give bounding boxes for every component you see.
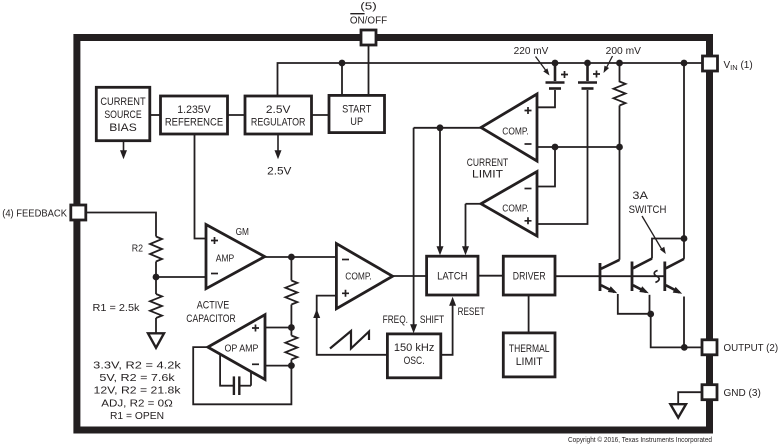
wire between compensation resistors: [290, 305, 292, 336]
svg-text:R1 = 2.5k: R1 = 2.5k: [93, 302, 141, 314]
junction node on VIN rail at startup: [339, 60, 346, 67]
box latch: [427, 256, 478, 295]
pin VIN (1): [703, 56, 718, 71]
resistor compensation upper: [285, 281, 297, 305]
arrowhead latch set 2: [462, 246, 469, 255]
wire cap2 to comp2 + input: [537, 90, 588, 224]
overline on ON: [350, 13, 364, 15]
transistor Q3: [665, 259, 684, 293]
base resistor squiggle: [654, 270, 659, 282]
transistor Q2: [632, 259, 652, 293]
svg-text:LIMIT: LIMIT: [472, 169, 503, 181]
svg-text:SWITCH: SWITCH: [629, 204, 667, 216]
minus mark GM: [211, 273, 218, 275]
svg-text:COMP.: COMP.: [502, 127, 529, 138]
wire Q3 emitter to output rail: [683, 297, 685, 348]
junction node cap2: [584, 60, 591, 67]
box 2.5V regulator: [245, 96, 312, 134]
wire frequency shift to oscillator: [413, 128, 415, 326]
wire startup feed from VIN rail: [341, 63, 343, 95]
junction node comp minus rail right: [616, 144, 623, 151]
box 150 kHz oscillator: [387, 334, 440, 378]
plus mark comp2: [525, 217, 532, 224]
svg-text:2.5V: 2.5V: [267, 166, 292, 178]
wire reset from oscillator to latch: [441, 305, 453, 355]
wire regulator to startup link: [312, 114, 330, 116]
svg-text:12V, R2 = 21.8k: 12V, R2 = 21.8k: [94, 385, 182, 397]
capacitor active feedback: [220, 355, 251, 396]
svg-text:GM: GM: [236, 226, 249, 238]
wire comparator output to latch: [393, 275, 427, 277]
svg-text:ADJ, R2 = 0Ω: ADJ, R2 = 0Ω: [101, 397, 173, 409]
sawtooth waveform: [330, 331, 369, 349]
plus mark cap1: [561, 71, 568, 78]
svg-text:ON/OFF: ON/OFF: [350, 16, 387, 27]
arrowhead Q3 emitter: [673, 287, 684, 297]
wire driver to thermal limit: [528, 295, 530, 333]
junction node op-amp -: [288, 362, 295, 369]
minus mark comp1: [525, 143, 532, 145]
arrowhead latch set 1: [437, 246, 444, 255]
svg-text:Copyright © 2016, Texas Instru: Copyright © 2016, Texas Instruments Inco…: [568, 436, 712, 444]
resistor current sense: [614, 63, 626, 106]
svg-text:RESET: RESET: [458, 306, 485, 318]
svg-text:R2: R2: [132, 243, 143, 255]
plus mark comp1: [525, 107, 532, 114]
wire set input to latch: [439, 128, 441, 248]
wire R2/R1 node to GM amp - input: [156, 276, 206, 278]
resistor compensation lower: [285, 336, 297, 360]
IC boundary border: [77, 38, 710, 431]
svg-text:OSC.: OSC.: [404, 355, 425, 367]
svg-text:(5): (5): [360, 2, 377, 13]
svg-text:OUTPUT (2): OUTPUT (2): [724, 343, 778, 354]
svg-text:3.3V, R2 = 4.2k: 3.3V, R2 = 4.2k: [93, 359, 181, 371]
wire VIN rail to switch collectors: [683, 63, 685, 259]
op-amp current limit comparator 1: [481, 94, 537, 161]
wire GM output node down to compensation resistor: [290, 257, 292, 281]
pin ON/OFF (5): [361, 30, 376, 45]
wire op-amp - input: [265, 365, 291, 367]
minus mark op-amp: [252, 363, 259, 365]
ground symbol: [670, 404, 686, 417]
arrowhead reset up: [449, 297, 456, 306]
wire Q2 collector branch: [652, 239, 684, 259]
box start up: [329, 95, 385, 132]
svg-text:OP AMP: OP AMP: [225, 344, 259, 355]
wire op-amp feedback loop: [193, 347, 291, 404]
open arrow below R1: [148, 333, 164, 348]
minus mark comp2: [525, 188, 532, 190]
junction node cap1: [552, 60, 559, 67]
arrowhead 2.5V down: [277, 134, 279, 152]
minus mark PWM comparator: [342, 259, 349, 261]
arrowhead sawtooth up: [313, 309, 320, 318]
op-amp GM amplifier: [206, 225, 265, 289]
resistor R2: [150, 237, 162, 262]
plus mark cap2: [593, 71, 600, 78]
junction node comp minus rail left: [552, 144, 559, 151]
svg-text:SHIFT: SHIFT: [420, 314, 445, 326]
box 1.235V reference: [161, 96, 228, 134]
transistor Q1: [600, 260, 620, 292]
svg-text:COMP.: COMP.: [345, 272, 372, 283]
svg-text:LIMIT: LIMIT: [516, 356, 543, 368]
svg-text:ACTIVE: ACTIVE: [197, 299, 229, 311]
wire R2 to R1: [155, 262, 157, 295]
wire sense resistor to Q1 collector: [619, 106, 621, 260]
svg-text:220 mV: 220 mV: [514, 46, 549, 57]
wire driver to switch base rail: [555, 275, 665, 277]
svg-text:R1 = OPEN: R1 = OPEN: [110, 410, 164, 422]
svg-text:CURRENT: CURRENT: [100, 96, 146, 108]
junction node R2/R1 divider: [153, 274, 160, 281]
wire Q2 emitter to emitter node: [649, 295, 651, 314]
arrowhead frequency shift: [410, 324, 417, 333]
svg-text:CURRENT: CURRENT: [467, 157, 509, 169]
wire GND pin to ground symbol: [678, 392, 702, 404]
svg-text:UP: UP: [350, 116, 363, 128]
wire comp1 - input rail: [537, 146, 620, 148]
pointer arrow 220 mV: [536, 57, 548, 73]
svg-text:THERMAL: THERMAL: [509, 343, 550, 355]
wire comparator + input to oscillator: [317, 296, 388, 355]
wire reference to regulator link: [228, 114, 246, 116]
arrowhead Q1 emitter: [608, 286, 619, 296]
op-amp current limit comparator 2: [481, 172, 537, 237]
svg-text:SOURCE: SOURCE: [104, 109, 141, 121]
svg-text:REFERENCE: REFERENCE: [165, 116, 223, 128]
junction node emitters: [647, 311, 654, 318]
svg-text:200 mV: 200 mV: [606, 46, 642, 57]
arrowhead Q2 emitter: [639, 286, 650, 296]
junction node GM output: [288, 254, 295, 261]
box thermal limit: [503, 333, 555, 377]
junction node Q2 collector: [681, 235, 688, 242]
wire latch to driver: [478, 275, 503, 277]
svg-text:DRIVER: DRIVER: [513, 271, 546, 283]
svg-text:START: START: [342, 104, 371, 116]
svg-text:REGULATOR: REGULATOR: [251, 116, 306, 128]
wire VIN rail from regulator to VIN pin: [278, 63, 703, 96]
pin GND (3): [702, 385, 717, 400]
wire R1 to open arrow: [155, 318, 157, 333]
svg-text:BIAS: BIAS: [109, 122, 137, 134]
svg-text:1.235V: 1.235V: [177, 104, 211, 116]
junction node op-amp +: [288, 324, 295, 331]
plus mark op-amp: [252, 325, 259, 332]
svg-text:150 kHz: 150 kHz: [394, 342, 435, 354]
resistor R1: [150, 294, 162, 318]
capacitor 200mV offset: [578, 63, 597, 89]
pointer arrow 3A switch: [642, 216, 663, 251]
wire reference to GM amp + input: [195, 134, 207, 239]
junction node sense resistor: [616, 60, 623, 67]
box current source bias: [96, 87, 150, 140]
wire bias to reference link: [150, 114, 161, 116]
pointer arrow 200 mV: [606, 56, 613, 70]
wire comp1 - node to comp2 - input: [537, 147, 555, 187]
wire Q1 emitter to emitter node: [618, 294, 651, 314]
box driver: [503, 256, 555, 295]
wire comp 2 output to latch: [465, 204, 467, 248]
capacitor 220mV offset: [546, 63, 565, 89]
plus mark PWM comparator: [342, 290, 349, 297]
svg-text:GND (3): GND (3): [724, 388, 761, 399]
wire lower resistor to op-amp - node: [290, 360, 292, 366]
wire current limit comp 1 output: [414, 127, 481, 129]
wire cap1 to comp1 + input: [537, 90, 555, 107]
wire current limit comp 2 output: [466, 203, 482, 205]
svg-text:COMP.: COMP.: [502, 204, 529, 215]
wire feedback pin to R2: [86, 213, 156, 237]
wire emitter node to OUTPUT pin: [651, 314, 702, 348]
junction node comp1 output: [437, 124, 444, 131]
svg-text:5V, R2 = 7.6k: 5V, R2 = 7.6k: [99, 372, 175, 384]
svg-text:LATCH: LATCH: [437, 271, 467, 283]
svg-text:3A: 3A: [632, 190, 648, 202]
junction node switch rail: [681, 60, 688, 67]
svg-text:FREQ.: FREQ.: [383, 314, 408, 326]
svg-text:CAPACITOR: CAPACITOR: [186, 313, 235, 325]
svg-text:(4) FEEDBACK: (4) FEEDBACK: [2, 209, 67, 220]
op-amp PWM comparator: [336, 244, 392, 309]
svg-text:AMP: AMP: [216, 253, 235, 265]
wire ON/OFF pin stem to START UP: [368, 45, 370, 95]
svg-text:2.5V: 2.5V: [266, 104, 291, 116]
svg-text:VIN (1): VIN (1): [724, 60, 753, 72]
junction node output rail: [681, 344, 688, 351]
op-amp active capacitor: [208, 315, 265, 380]
wire GM amp output to comparator - input: [265, 256, 337, 258]
wire op-amp + input: [265, 327, 291, 329]
plus mark GM: [211, 237, 218, 244]
arrowhead bias down: [123, 141, 125, 151]
pin FEEDBACK (4): [71, 205, 86, 220]
pin OUTPUT (2): [702, 340, 717, 355]
